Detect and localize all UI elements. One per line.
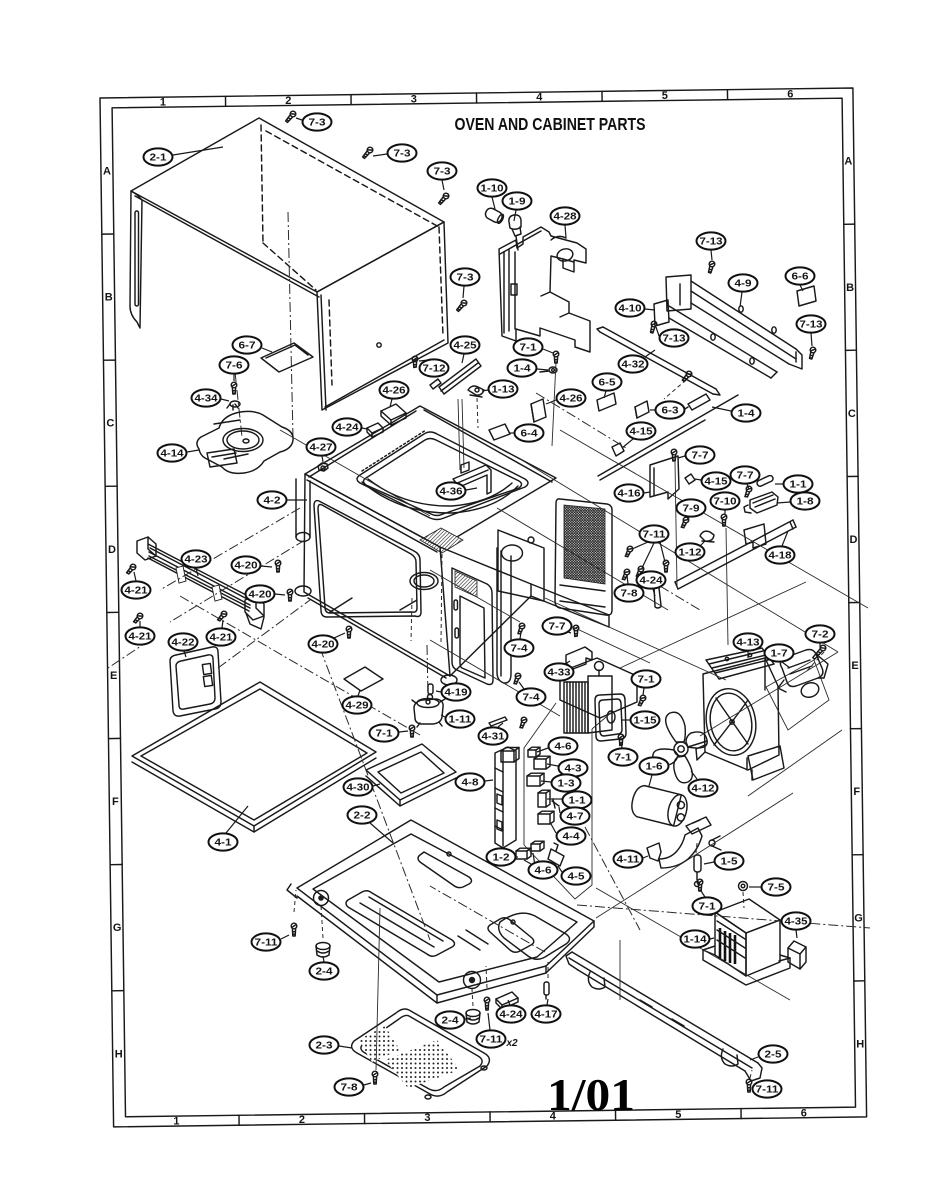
- callout 1-8: [777, 492, 820, 509]
- callout 7-1: [693, 891, 722, 915]
- svg-text:B: B: [846, 282, 854, 294]
- svg-text:7-10: 7-10: [714, 497, 738, 508]
- svg-text:6: 6: [787, 88, 793, 100]
- screw 7-3 a: [284, 110, 297, 123]
- svg-text:7-5: 7-5: [768, 883, 786, 894]
- part 1-13 clamp: [468, 386, 484, 397]
- screw 4-21 a: [125, 563, 137, 575]
- screw 7-12: [412, 356, 418, 367]
- svg-text:C: C: [848, 408, 856, 420]
- part 4-27 nut: [318, 463, 328, 471]
- svg-text:7-1: 7-1: [520, 343, 538, 354]
- svg-text:1-9: 1-9: [509, 197, 527, 208]
- callout 4-15: [695, 472, 731, 489]
- svg-text:D: D: [850, 534, 858, 546]
- svg-text:1-5: 1-5: [721, 857, 739, 868]
- cavity right wall panel: [498, 530, 544, 601]
- centerline axis: [288, 212, 293, 438]
- callout 4-9: [729, 274, 758, 307]
- part 1-12 clamp: [700, 531, 714, 542]
- front-right panel: [452, 548, 511, 685]
- callout 2-4: [310, 956, 339, 980]
- part 4-36 duct cover: [453, 465, 491, 494]
- svg-text:7-7: 7-7: [549, 622, 567, 633]
- svg-text:4-25: 4-25: [454, 341, 478, 352]
- rear vent panel with grille: [555, 499, 612, 615]
- callout 7-7: [543, 617, 572, 634]
- svg-text:1-4: 1-4: [514, 364, 532, 375]
- callout 7-13: [697, 232, 726, 260]
- callout 1-3: [541, 774, 581, 791]
- screw 7-4 b: [512, 672, 521, 685]
- callout 4-7: [559, 807, 590, 825]
- svg-text:C: C: [106, 418, 114, 430]
- svg-text:E: E: [851, 660, 858, 672]
- screw 7-1 e: [637, 694, 647, 707]
- callout 7-10: [711, 492, 740, 515]
- callout 4-34: [192, 389, 230, 406]
- part 4-25 bar: [430, 359, 481, 394]
- part 1-9 socket: [509, 215, 521, 250]
- callout 4-6: [524, 853, 558, 879]
- svg-text:1-12: 1-12: [679, 548, 703, 559]
- svg-text:OVEN AND CABINET PARTS: OVEN AND CABINET PARTS: [455, 114, 646, 134]
- screw 7-7 c: [573, 625, 579, 636]
- svg-text:4-24: 4-24: [336, 423, 360, 434]
- callout 1-7: [765, 644, 794, 668]
- svg-text:4-33: 4-33: [548, 668, 572, 679]
- small terminals: [709, 836, 721, 850]
- latch housing: [501, 748, 519, 763]
- part 1-6 capacitor: [629, 784, 690, 828]
- foot 2-4 b: [466, 1010, 480, 1025]
- callout 4-16: [615, 484, 651, 501]
- callout 7-4: [517, 682, 546, 706]
- washer 7-5: [739, 882, 748, 891]
- screws 7-11 trio: [624, 545, 634, 558]
- callout 1-1: [775, 475, 813, 492]
- border frame outer: [100, 88, 867, 1127]
- callout 7-3: [428, 162, 457, 190]
- svg-text:4-5: 4-5: [568, 872, 586, 883]
- svg-text:7-3: 7-3: [309, 118, 327, 129]
- axis: [235, 372, 242, 437]
- screw 7-10: [721, 514, 727, 526]
- svg-text:6: 6: [801, 1107, 807, 1119]
- screw 7-11 b: [484, 997, 490, 1010]
- screw 4-21 b: [132, 612, 144, 624]
- callout 4-10: [616, 299, 656, 316]
- svg-text:4-13: 4-13: [737, 638, 761, 649]
- callout 6-5: [593, 373, 622, 398]
- construction lines: [280, 430, 868, 1000]
- switch 4-6 a: [528, 747, 540, 757]
- screw 7-7 b: [743, 485, 752, 498]
- svg-text:4-16: 4-16: [618, 489, 642, 500]
- callout 1-9: [503, 192, 532, 221]
- svg-text:1-11: 1-11: [449, 715, 473, 726]
- callout 4-13: [734, 633, 763, 658]
- callout 4-5: [558, 866, 591, 885]
- svg-text:G: G: [113, 922, 122, 934]
- svg-text:4-20: 4-20: [312, 640, 336, 651]
- part 6-6 plate: [797, 286, 816, 306]
- svg-text:4-23: 4-23: [185, 555, 209, 566]
- svg-text:7-1: 7-1: [376, 729, 394, 740]
- svg-text:4-8: 4-8: [462, 778, 480, 789]
- callout 4-32: [619, 350, 656, 373]
- svg-text:7-13: 7-13: [663, 334, 687, 345]
- svg-text:4-24: 4-24: [500, 1010, 524, 1021]
- svg-text:2: 2: [285, 95, 291, 107]
- svg-text:4-12: 4-12: [692, 784, 716, 795]
- callout 1-6: [640, 757, 669, 786]
- svg-text:4-6: 4-6: [535, 866, 553, 877]
- part 4-26 cushion a: [381, 404, 406, 425]
- svg-text:4-15: 4-15: [705, 477, 729, 488]
- svg-text:F: F: [853, 786, 860, 798]
- svg-text:7-4: 7-4: [523, 693, 541, 704]
- svg-text:7-4: 7-4: [511, 644, 529, 655]
- callout 7-5: [749, 878, 791, 895]
- screw 7-3 c: [437, 192, 450, 205]
- part 4-32 rail: [597, 327, 720, 395]
- svg-text:1: 1: [173, 1116, 179, 1128]
- screw 7-13 c: [808, 347, 816, 360]
- screw hole dot: [377, 343, 381, 347]
- part 6-4 plate: [489, 424, 510, 440]
- svg-text:4-21: 4-21: [129, 632, 153, 643]
- screw 7-13 a: [707, 261, 715, 274]
- screw 7-4 a: [516, 622, 525, 635]
- part 4-10 rail: [654, 300, 777, 378]
- svg-text:7-11: 7-11: [255, 938, 279, 949]
- callout 7-11: [252, 933, 290, 950]
- callout 1-4: [508, 359, 549, 376]
- svg-text:7-11: 7-11: [480, 1035, 504, 1046]
- svg-text:4-30: 4-30: [347, 783, 371, 794]
- svg-text:E: E: [110, 670, 117, 682]
- svg-text:4-4: 4-4: [563, 832, 581, 843]
- svg-text:A: A: [844, 156, 852, 168]
- screw 7-13 b: [649, 321, 657, 334]
- part 2-1 outer cabinet wrap: [130, 118, 448, 410]
- callout 1-10: [478, 179, 507, 209]
- svg-text:1-7: 1-7: [771, 649, 789, 660]
- part 4-34 coupler: [227, 401, 240, 410]
- part 4-24 pin b: [652, 587, 663, 609]
- svg-text:4-35: 4-35: [785, 917, 809, 928]
- foot 2-4 a: [316, 943, 330, 958]
- part 1-4 bushing: [540, 367, 557, 373]
- callout 4-26: [380, 381, 409, 407]
- screw 7-9: [680, 516, 690, 529]
- part 6-3 plate: [635, 401, 649, 418]
- svg-text:1-2: 1-2: [493, 853, 511, 864]
- callout 7-1: [514, 338, 554, 355]
- callout 7-13: [797, 315, 826, 346]
- svg-text:4-3: 4-3: [565, 764, 583, 775]
- part 4-16 plate: [650, 456, 679, 499]
- part 1-7 fan motor: [766, 650, 829, 731]
- svg-text:2: 2: [299, 1114, 305, 1126]
- part 1-1 rod: [756, 475, 774, 488]
- callout 4-3: [547, 759, 588, 776]
- callout 4-20: [232, 556, 273, 573]
- callout 2-3: [310, 1036, 353, 1053]
- svg-text:4-1: 4-1: [215, 838, 233, 849]
- callout 7-11: [477, 1013, 506, 1048]
- callout 4-31: [479, 723, 508, 745]
- callout 4-18: [766, 531, 795, 564]
- svg-text:2-3: 2-3: [316, 1041, 334, 1052]
- screw 4-20 c: [346, 626, 352, 638]
- callout 7-3: [373, 144, 417, 161]
- callout 4-35: [782, 912, 811, 938]
- svg-text:1/01: 1/01: [547, 1070, 635, 1120]
- screw 4-20 b: [287, 589, 293, 601]
- part 4-24 block top: [367, 423, 383, 437]
- callout 4-15: [622, 422, 656, 448]
- callout 4-8: [456, 773, 494, 790]
- svg-text:6-3: 6-3: [662, 406, 680, 417]
- svg-text:7-3: 7-3: [457, 273, 475, 284]
- part 4-28 air guide panel: [499, 227, 590, 352]
- switch 1-1: [538, 790, 550, 807]
- svg-text:7-1: 7-1: [699, 902, 717, 913]
- callout 7-9: [677, 499, 706, 520]
- svg-text:4-15: 4-15: [630, 427, 654, 438]
- callout 4-27: [307, 438, 336, 462]
- screw 7-3 d: [455, 299, 468, 312]
- part 6-7 insulation sheet: [261, 343, 313, 372]
- callout 4-4: [551, 824, 586, 845]
- part 2-5 guide rail: [566, 952, 762, 1081]
- callout 1-4: [712, 404, 761, 421]
- part 1-14 transformer: [703, 899, 790, 985]
- part 4-22 door frame: [108, 600, 310, 716]
- svg-text:1-1: 1-1: [569, 796, 587, 807]
- callout 6-4: [509, 424, 544, 441]
- svg-text:6-6: 6-6: [792, 272, 810, 283]
- svg-text:4-21: 4-21: [125, 586, 149, 597]
- svg-text:1: 1: [160, 97, 166, 109]
- part 4-33 bracket: [566, 647, 592, 669]
- svg-text:3: 3: [411, 93, 417, 105]
- part 4-7: [552, 799, 559, 808]
- svg-text:4-7: 4-7: [567, 812, 585, 823]
- svg-text:4-26: 4-26: [560, 394, 584, 405]
- part 6-5 plate: [597, 393, 616, 411]
- part 4-30 shelf bracket: [366, 744, 456, 806]
- callout 2-5: [750, 1045, 788, 1062]
- callout 7-3: [451, 268, 480, 298]
- callout 7-1: [370, 724, 409, 741]
- callout 6-7: [233, 336, 273, 353]
- svg-text:7-3: 7-3: [434, 167, 452, 178]
- svg-text:4-31: 4-31: [482, 732, 506, 743]
- screw 7-1 under motor: [409, 725, 415, 737]
- callout 4-21: [126, 621, 155, 645]
- svg-text:4-18: 4-18: [769, 551, 793, 562]
- svg-text:4-22: 4-22: [172, 638, 196, 649]
- callout 6-3: [650, 401, 685, 418]
- part 4-12 fan blade: [653, 712, 707, 783]
- svg-text:7-1: 7-1: [638, 675, 656, 686]
- svg-text:4-19: 4-19: [445, 688, 469, 699]
- svg-text:1-4: 1-4: [738, 409, 756, 420]
- part 4-18 rail: [675, 520, 796, 589]
- svg-text:1-6: 1-6: [646, 762, 664, 773]
- svg-text:1-14: 1-14: [684, 935, 708, 946]
- svg-text:2-1: 2-1: [150, 153, 168, 164]
- callout 4-30: [344, 778, 381, 795]
- svg-text:6-4: 6-4: [521, 429, 539, 440]
- callout 4-14: [158, 444, 200, 461]
- part 1-4 power cord: [598, 394, 738, 480]
- callout 7-8: [615, 575, 644, 602]
- callout 4-29: [343, 690, 372, 714]
- svg-text:4: 4: [536, 92, 543, 104]
- callout 1-14: [681, 930, 715, 947]
- callout 4-17: [532, 999, 561, 1023]
- svg-text:5: 5: [662, 90, 668, 102]
- svg-text:A: A: [103, 166, 111, 178]
- callout 4-20: [246, 585, 286, 602]
- svg-text:4-21: 4-21: [210, 633, 234, 644]
- part 4-9 rail: [666, 275, 802, 369]
- border frame inner: [112, 98, 855, 1117]
- callout 7-11: [632, 525, 669, 568]
- svg-text:2-5: 2-5: [765, 1050, 783, 1061]
- callout 1-5: [704, 852, 744, 869]
- svg-text:4-28: 4-28: [554, 212, 578, 223]
- callout 4-22: [169, 633, 198, 657]
- svg-text:1-8: 1-8: [797, 497, 815, 508]
- svg-text:7-8: 7-8: [341, 1083, 359, 1094]
- part 4-15 plate a: [612, 443, 624, 456]
- svg-text:4-32: 4-32: [622, 360, 646, 371]
- callout 2-4: [436, 1011, 472, 1028]
- svg-text:7-6: 7-6: [226, 361, 244, 372]
- callout 4-33: [545, 661, 574, 681]
- part 4-2 oven cavity: [295, 399, 609, 685]
- callout 4-11: [614, 850, 649, 867]
- svg-text:1-15: 1-15: [634, 716, 658, 727]
- part 1-10 lamp: [484, 206, 505, 224]
- svg-text:4-26: 4-26: [383, 386, 407, 397]
- svg-text:4-20: 4-20: [249, 590, 273, 601]
- part 1-2: [516, 848, 531, 859]
- svg-text:4-14: 4-14: [161, 449, 185, 460]
- callout 2-1: [144, 147, 224, 166]
- callout 4-36: [437, 482, 478, 499]
- svg-text:F: F: [112, 796, 119, 808]
- switch 4-3: [534, 756, 550, 769]
- screw 4-20 a: [275, 560, 281, 572]
- part 1-8 bracket: [744, 492, 778, 513]
- callout 4-23: [182, 550, 211, 576]
- part 4-29 sheet: [344, 667, 383, 691]
- part 4-23 vent grille: [137, 537, 264, 629]
- svg-text:B: B: [105, 292, 113, 304]
- svg-text:4-34: 4-34: [195, 394, 219, 405]
- callout 7-2: [806, 625, 835, 647]
- part 4-15 plate b: [685, 474, 695, 484]
- svg-text:2-4: 2-4: [442, 1016, 460, 1027]
- part 4-8 latch board: [495, 747, 516, 848]
- screw 7-3 b: [361, 146, 374, 159]
- svg-text:1-1: 1-1: [790, 480, 808, 491]
- svg-text:4-9: 4-9: [735, 279, 753, 290]
- svg-text:7-7: 7-7: [737, 471, 755, 482]
- callout 6-6: [786, 267, 815, 291]
- callout 7-3: [296, 113, 332, 130]
- callout 1-12: [676, 541, 706, 561]
- part 2-3 bottom cover: [352, 1009, 490, 1099]
- svg-text:7-12: 7-12: [423, 364, 447, 375]
- callout 4-26: [546, 389, 586, 406]
- screw 7-6: [231, 382, 237, 394]
- screw 7-7 a: [671, 449, 677, 461]
- screw 7-1 b2: [553, 351, 559, 363]
- svg-text:4-27: 4-27: [310, 443, 334, 454]
- callout 7-4: [505, 632, 534, 657]
- svg-text:4-29: 4-29: [346, 701, 370, 712]
- svg-text:7-3: 7-3: [394, 149, 412, 160]
- callout 7-13: [656, 327, 689, 347]
- callout 7-12: [419, 359, 449, 376]
- callout 4-21: [207, 620, 236, 646]
- svg-text:4-10: 4-10: [619, 304, 643, 315]
- screw 7-2: [812, 644, 827, 660]
- callout 7-11: [752, 1080, 782, 1097]
- callout 4-24: [497, 1000, 526, 1023]
- callout 4-20: [309, 633, 346, 653]
- part 4-1 base tray: [132, 682, 376, 832]
- callout 7-6: [220, 356, 249, 381]
- svg-text:4-36: 4-36: [440, 487, 464, 498]
- callout 1-15: [621, 711, 660, 728]
- svg-text:4-11: 4-11: [617, 855, 641, 866]
- part 4-13 fan housing: [696, 648, 784, 780]
- callout 4-1: [209, 806, 249, 851]
- callout 1-13: [482, 380, 518, 397]
- switch 4-4: [538, 811, 554, 824]
- part 4-19 seal: [428, 684, 434, 700]
- svg-text:7-9: 7-9: [683, 504, 701, 515]
- part 4-5: [548, 843, 564, 866]
- callout 1-1: [547, 791, 592, 808]
- screw 7-11 a: [291, 923, 297, 936]
- switch cluster fence: [524, 703, 556, 845]
- part 4-14 turntable support: [197, 411, 293, 473]
- part 4-17 pin: [544, 982, 549, 999]
- svg-text:G: G: [854, 912, 863, 924]
- svg-text:7-13: 7-13: [800, 320, 824, 331]
- callout 4-28: [551, 207, 580, 238]
- callout 7-8: [335, 1078, 372, 1095]
- svg-text:7-2: 7-2: [812, 630, 830, 641]
- part 4-26 panel b: [531, 399, 546, 422]
- part 2-2 base plate: [287, 820, 594, 1003]
- svg-text:4-17: 4-17: [535, 1010, 559, 1021]
- callout 7-1: [632, 670, 661, 695]
- svg-text:5: 5: [675, 1109, 681, 1121]
- svg-text:1-10: 1-10: [481, 184, 505, 195]
- svg-text:4-24: 4-24: [640, 576, 664, 587]
- screw 7-11 c: [746, 1079, 752, 1092]
